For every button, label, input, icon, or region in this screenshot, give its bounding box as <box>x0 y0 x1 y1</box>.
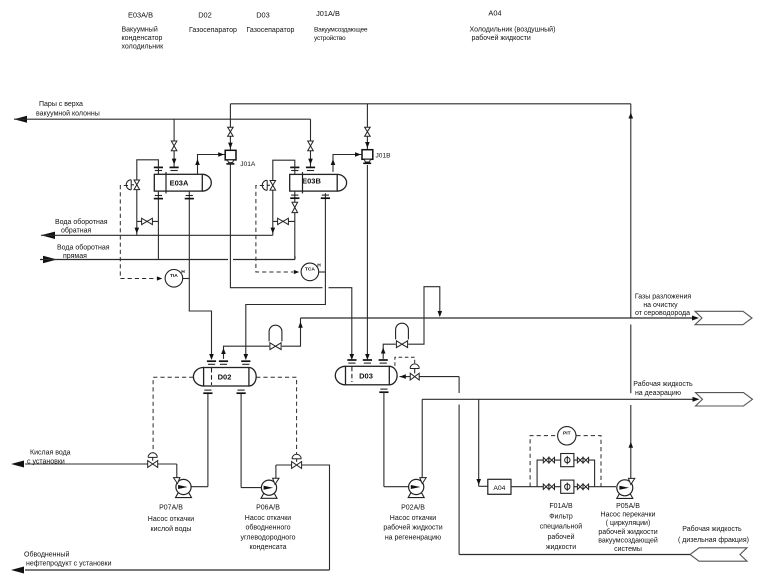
svg-text:( дизельная фракция): ( дизельная фракция) <box>678 537 749 544</box>
svg-text:Фильтр: Фильтр <box>549 513 573 520</box>
svg-text:PIT: PIT <box>563 431 571 437</box>
wire acid water from D02 to P07 suction <box>191 394 208 487</box>
svg-text:на регененрацию: на регененрацию <box>385 534 441 541</box>
svg-text:D02: D02 <box>198 11 212 20</box>
svg-text:Вода оборотная: Вода оборотная <box>57 244 110 252</box>
flange D02 bottom nozzle 1 <box>203 392 212 394</box>
control valve TV on E03B water return <box>262 180 275 190</box>
svg-text:Газосепаратор: Газосепаратор <box>189 27 237 34</box>
pump P06A/B condensate pump <box>261 478 279 498</box>
valves filter F01 upper branch inlet <box>543 457 546 462</box>
instrument TIA temperature indicator alarm <box>165 269 189 287</box>
svg-text:нефтепродукт с установки: нефтепродукт с установки <box>26 561 112 568</box>
flange E03A feed nozzle <box>170 166 179 168</box>
wire E03A condensate outlet to D02 <box>189 191 214 360</box>
valves filter F01 upper branch outlet <box>577 457 580 462</box>
air cooler A04 <box>488 479 511 494</box>
wire P05 discharge riser to motive header <box>629 104 634 479</box>
wire P02 discharge to deaeration header <box>422 399 697 478</box>
flange D02 top nozzle 3 <box>241 360 250 362</box>
svg-text:конденсата: конденсата <box>249 544 286 551</box>
svg-text:специальной: специальной <box>540 523 582 531</box>
wire D03 bottoms to P02 suction <box>384 392 409 487</box>
svg-text:J01B: J01B <box>376 153 392 160</box>
wire hydrocarbon product line out <box>11 567 330 574</box>
instrument signal D02 level to P06 valve <box>256 377 296 454</box>
svg-text:D03: D03 <box>256 11 270 20</box>
wire diesel fraction line <box>459 554 690 556</box>
svg-text:Газосепаратор: Газосепаратор <box>247 27 295 34</box>
svg-text:Вода оборотная: Вода оборотная <box>55 218 108 226</box>
instrument PIT pressure transmitter <box>558 427 576 445</box>
svg-text:Вакуумсоздающее: Вакуумсоздающее <box>314 27 368 34</box>
wire filter upper branch <box>537 460 595 487</box>
node cooling water supply inlet <box>43 244 110 264</box>
pump P02A/B working fluid pump <box>408 478 426 498</box>
svg-text:кислой воды: кислой воды <box>151 525 192 533</box>
node vapour feed inlet from vacuum column <box>14 101 100 123</box>
wire J01A suction drop from header <box>228 104 233 151</box>
wire E03B water bypass with valve <box>273 220 295 222</box>
instrument signal dashed box around filters <box>530 436 601 487</box>
flange D03 bottom nozzle <box>379 391 388 393</box>
svg-text:от сероводорода: от сероводорода <box>635 310 690 317</box>
control valve LV on P06 discharge <box>292 454 302 468</box>
svg-text:вакуумсоздающей: вакуумсоздающей <box>598 536 658 544</box>
node cooling water return outlet <box>41 218 108 239</box>
vessel D02 gas separator <box>193 368 256 387</box>
wire branch to A04 cooler <box>476 399 487 486</box>
wire E03A water return via control valve <box>135 160 159 236</box>
filter F01A <box>561 454 574 467</box>
valve on J01A drop <box>228 127 234 132</box>
flange D03 top nozzle 3 <box>379 359 388 361</box>
svg-text:вакуумной колонны: вакуумной колонны <box>36 110 100 118</box>
flange E03B bottom-left nozzle <box>290 197 299 199</box>
filter F01B <box>561 480 574 493</box>
svg-text:холодильник: холодильник <box>122 44 165 51</box>
wire P07 discharge acid water line <box>11 461 177 478</box>
svg-text:Насос откачки: Насос откачки <box>148 516 194 523</box>
svg-text:Насос перекачки: Насос перекачки <box>601 512 656 519</box>
vessel E03A vacuum condenser <box>154 172 211 193</box>
node gas outlet to H2S treating <box>635 294 752 325</box>
svg-text:A04: A04 <box>493 485 505 492</box>
flange E03B bottom-right nozzle <box>321 197 330 199</box>
flange D02 bottom nozzle 2 <box>237 392 246 394</box>
wire D02 vapour line to gas header <box>221 318 303 359</box>
svg-text:обратная: обратная <box>61 227 91 235</box>
flange D03 top nozzle 1 <box>347 359 356 361</box>
svg-text:жидкости: жидкости <box>546 544 576 551</box>
wire P06 discharge line <box>276 465 330 570</box>
node acid water outlet <box>27 450 71 466</box>
node hydrocarbon product outlet <box>24 551 112 568</box>
label D02 header <box>189 11 237 35</box>
svg-text:на очистку: на очистку <box>643 302 678 309</box>
node working fluid to deaeration outlet <box>633 380 752 406</box>
flange D02 top nozzle 1 <box>207 360 216 362</box>
wire D03 vapour line to gas header <box>381 287 442 359</box>
svg-text:A04: A04 <box>488 9 501 18</box>
control valve LV on acid water line <box>148 453 158 468</box>
svg-text:углеводородного: углеводородного <box>240 534 295 541</box>
wire E03A feed drop <box>172 119 177 167</box>
wire E03B water supply riser <box>294 191 296 259</box>
wire motive fluid top header <box>230 103 630 105</box>
svg-text:Насос откачки: Насос откачки <box>390 515 436 522</box>
svg-text:P06A/B: P06A/B <box>256 505 280 512</box>
svg-text:на деаэрацию: на деаэрацию <box>635 390 681 397</box>
svg-text:Рабочая жидкость: Рабочая жидкость <box>682 525 742 533</box>
flange D03 top nozzle 2 <box>363 359 372 361</box>
label D03 header <box>247 11 295 35</box>
svg-text:H: H <box>317 263 321 269</box>
pump P05A/B circulation pump <box>617 478 635 498</box>
wire vapour feed header <box>14 118 311 120</box>
label P07A/B <box>148 505 194 533</box>
wire J01B discharge to D03 <box>365 165 370 360</box>
valves filter F01 lower branch inlet <box>543 484 546 489</box>
seal pot on D02 vapour line <box>269 325 282 341</box>
svg-text:устройство: устройство <box>314 34 346 42</box>
vessel E03B vacuum condenser <box>290 172 347 193</box>
wire A04 outlet to filters and P05 suction <box>511 486 616 488</box>
seal pot on D03 vapour line <box>396 323 409 339</box>
label E03A/B header <box>122 11 165 51</box>
wire J01B suction drop from header <box>365 104 370 150</box>
control valve TV on E03A water return <box>126 180 139 190</box>
svg-text:рабочей: рабочей <box>548 533 575 541</box>
wire working fluid make-up into D03 <box>400 374 460 554</box>
ejector J01A <box>225 150 256 168</box>
svg-text:TCA: TCA <box>305 267 316 273</box>
wire E03B water return via control valve <box>271 160 295 235</box>
svg-text:с установки: с установки <box>27 459 65 466</box>
svg-text:конденсатор: конденсатор <box>122 35 163 42</box>
wire cooling water return header <box>41 234 273 236</box>
svg-text:Пары с верха: Пары с верха <box>39 101 83 108</box>
control valve LV on D03 make-up <box>410 364 419 380</box>
valve on J01B drop <box>365 127 371 132</box>
label A04 header <box>470 9 556 43</box>
flange E03B feed nozzle <box>306 166 315 168</box>
svg-text:обводненного: обводненного <box>245 524 290 532</box>
flange D02 top nozzle 2 <box>219 360 228 362</box>
instrument signal to TCA <box>256 186 299 275</box>
svg-text:D03: D03 <box>359 371 373 380</box>
svg-text:рабочей жидкости: рабочей жидкости <box>472 34 531 42</box>
wire E03A water supply riser <box>157 191 159 259</box>
svg-text:J01A/B: J01A/B <box>316 9 340 18</box>
svg-text:Кислая вода: Кислая вода <box>30 450 71 457</box>
svg-text:H: H <box>181 269 185 275</box>
svg-text:Рабочая жидкость: Рабочая жидкость <box>633 380 693 388</box>
valve on E03A bypass <box>142 218 147 224</box>
flange E03A water outlet nozzle top-left <box>154 166 163 168</box>
svg-text:P05A/B: P05A/B <box>616 503 640 510</box>
svg-text:Вакуумный: Вакуумный <box>122 26 158 34</box>
svg-text:E03B: E03B <box>302 177 321 186</box>
valve on E03B water supply riser <box>292 202 298 207</box>
svg-text:P02A/B: P02A/B <box>401 505 425 512</box>
flange E03A bottom-right nozzle <box>185 198 194 200</box>
svg-text:E03A/B: E03A/B <box>128 11 153 20</box>
svg-text:F01A/B: F01A/B <box>549 503 573 510</box>
flange E03A bottom-left nozzle <box>154 198 163 200</box>
wire J01A discharge to D03 <box>230 164 354 360</box>
label J01A/B header <box>314 9 368 42</box>
svg-text:Насос откачки: Насос откачки <box>245 515 291 522</box>
flange E03B water outlet nozzle top-left <box>290 166 299 168</box>
node diesel fraction make-up inlet <box>678 525 749 561</box>
valves filter F01 lower branch outlet <box>577 484 580 489</box>
instrument signal D03 level to valve <box>395 357 415 366</box>
label P02A/B <box>383 505 442 542</box>
valve on E03A feed drop <box>171 141 177 146</box>
svg-text:E03A: E03A <box>170 179 189 188</box>
svg-text:D02: D02 <box>218 373 232 382</box>
svg-text:системы: системы <box>614 546 642 553</box>
wire cooling water supply header <box>40 256 295 260</box>
wire condensate from D02 to P06 suction <box>241 394 262 488</box>
svg-text:P07A/B: P07A/B <box>159 505 183 512</box>
instrument signal D02 level to P07 valve <box>153 377 193 453</box>
label F01A/B <box>540 503 582 551</box>
svg-text:J01A: J01A <box>240 161 256 168</box>
svg-text:Газы разложения: Газы разложения <box>635 294 692 301</box>
svg-text:рабочей жидкости: рабочей жидкости <box>598 528 657 536</box>
wire E03A vapour outlet to J01A <box>195 152 224 174</box>
label P05A/B <box>598 503 658 553</box>
wire E03B condensate outlet to D02 <box>244 193 326 360</box>
wire E03B feed drop <box>308 119 313 167</box>
wire E03B vapour outlet to J01B <box>331 152 362 172</box>
label P06A/B <box>240 505 295 552</box>
svg-text:рабочей жидкости: рабочей жидкости <box>383 524 442 532</box>
ejector J01B <box>362 150 391 164</box>
pump P07A/B acid water pump <box>174 478 192 498</box>
svg-text:Обводненный: Обводненный <box>24 551 69 559</box>
wire gas header to treating <box>301 317 697 319</box>
svg-text:( циркуляции): ( циркуляции) <box>606 520 651 527</box>
svg-text:TIA: TIA <box>170 273 178 279</box>
valve on E03B feed drop <box>308 141 314 146</box>
instrument TCA temperature controller alarm <box>301 263 325 281</box>
valve on E03B bypass <box>278 218 283 224</box>
wire E03A water bypass with valve <box>137 220 159 222</box>
svg-text:Холодильник (воздушный): Холодильник (воздушный) <box>470 26 556 34</box>
vessel D03 gas separator <box>335 366 397 385</box>
instrument signal to TIA <box>120 186 162 281</box>
